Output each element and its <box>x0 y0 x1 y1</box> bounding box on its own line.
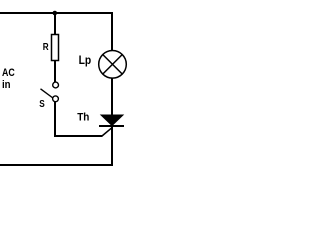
resistor R (rectangle body) <box>52 35 59 61</box>
svg-text:S: S <box>39 98 45 110</box>
wire: resistor bottom to switch upper contact <box>54 61 56 82</box>
switch S: lower contact circle <box>53 96 59 102</box>
wire: junction down to resistor <box>54 13 56 34</box>
wire: right branch vertical, top corner down to lamp <box>111 12 113 51</box>
node: junction dot of R branch and lamp branch <box>53 11 58 16</box>
thyristor Th: anode triangle <box>101 115 123 126</box>
wire: lamp bottom to thyristor anode <box>111 78 113 116</box>
wire: switch lower contact down and right to gate <box>55 102 102 137</box>
wire: bottom AC return from left edge to right branch <box>0 164 113 166</box>
svg-text:in: in <box>2 79 11 91</box>
thyristor Th: cathode bar <box>99 125 124 127</box>
switch S: open arm blade <box>41 89 53 98</box>
svg-text:AC: AC <box>2 67 15 79</box>
wire: top AC feed from left edge to right branch <box>0 12 113 14</box>
svg-text:Th: Th <box>77 111 89 123</box>
svg-text:R: R <box>43 41 49 53</box>
wire: thyristor gate diagonal <box>102 127 112 136</box>
svg-text:Lp: Lp <box>79 55 92 67</box>
switch S: upper contact circle <box>53 82 59 88</box>
lamp Lp (circle with X) <box>99 51 127 79</box>
wire: thyristor cathode down to bottom wire <box>111 127 113 166</box>
